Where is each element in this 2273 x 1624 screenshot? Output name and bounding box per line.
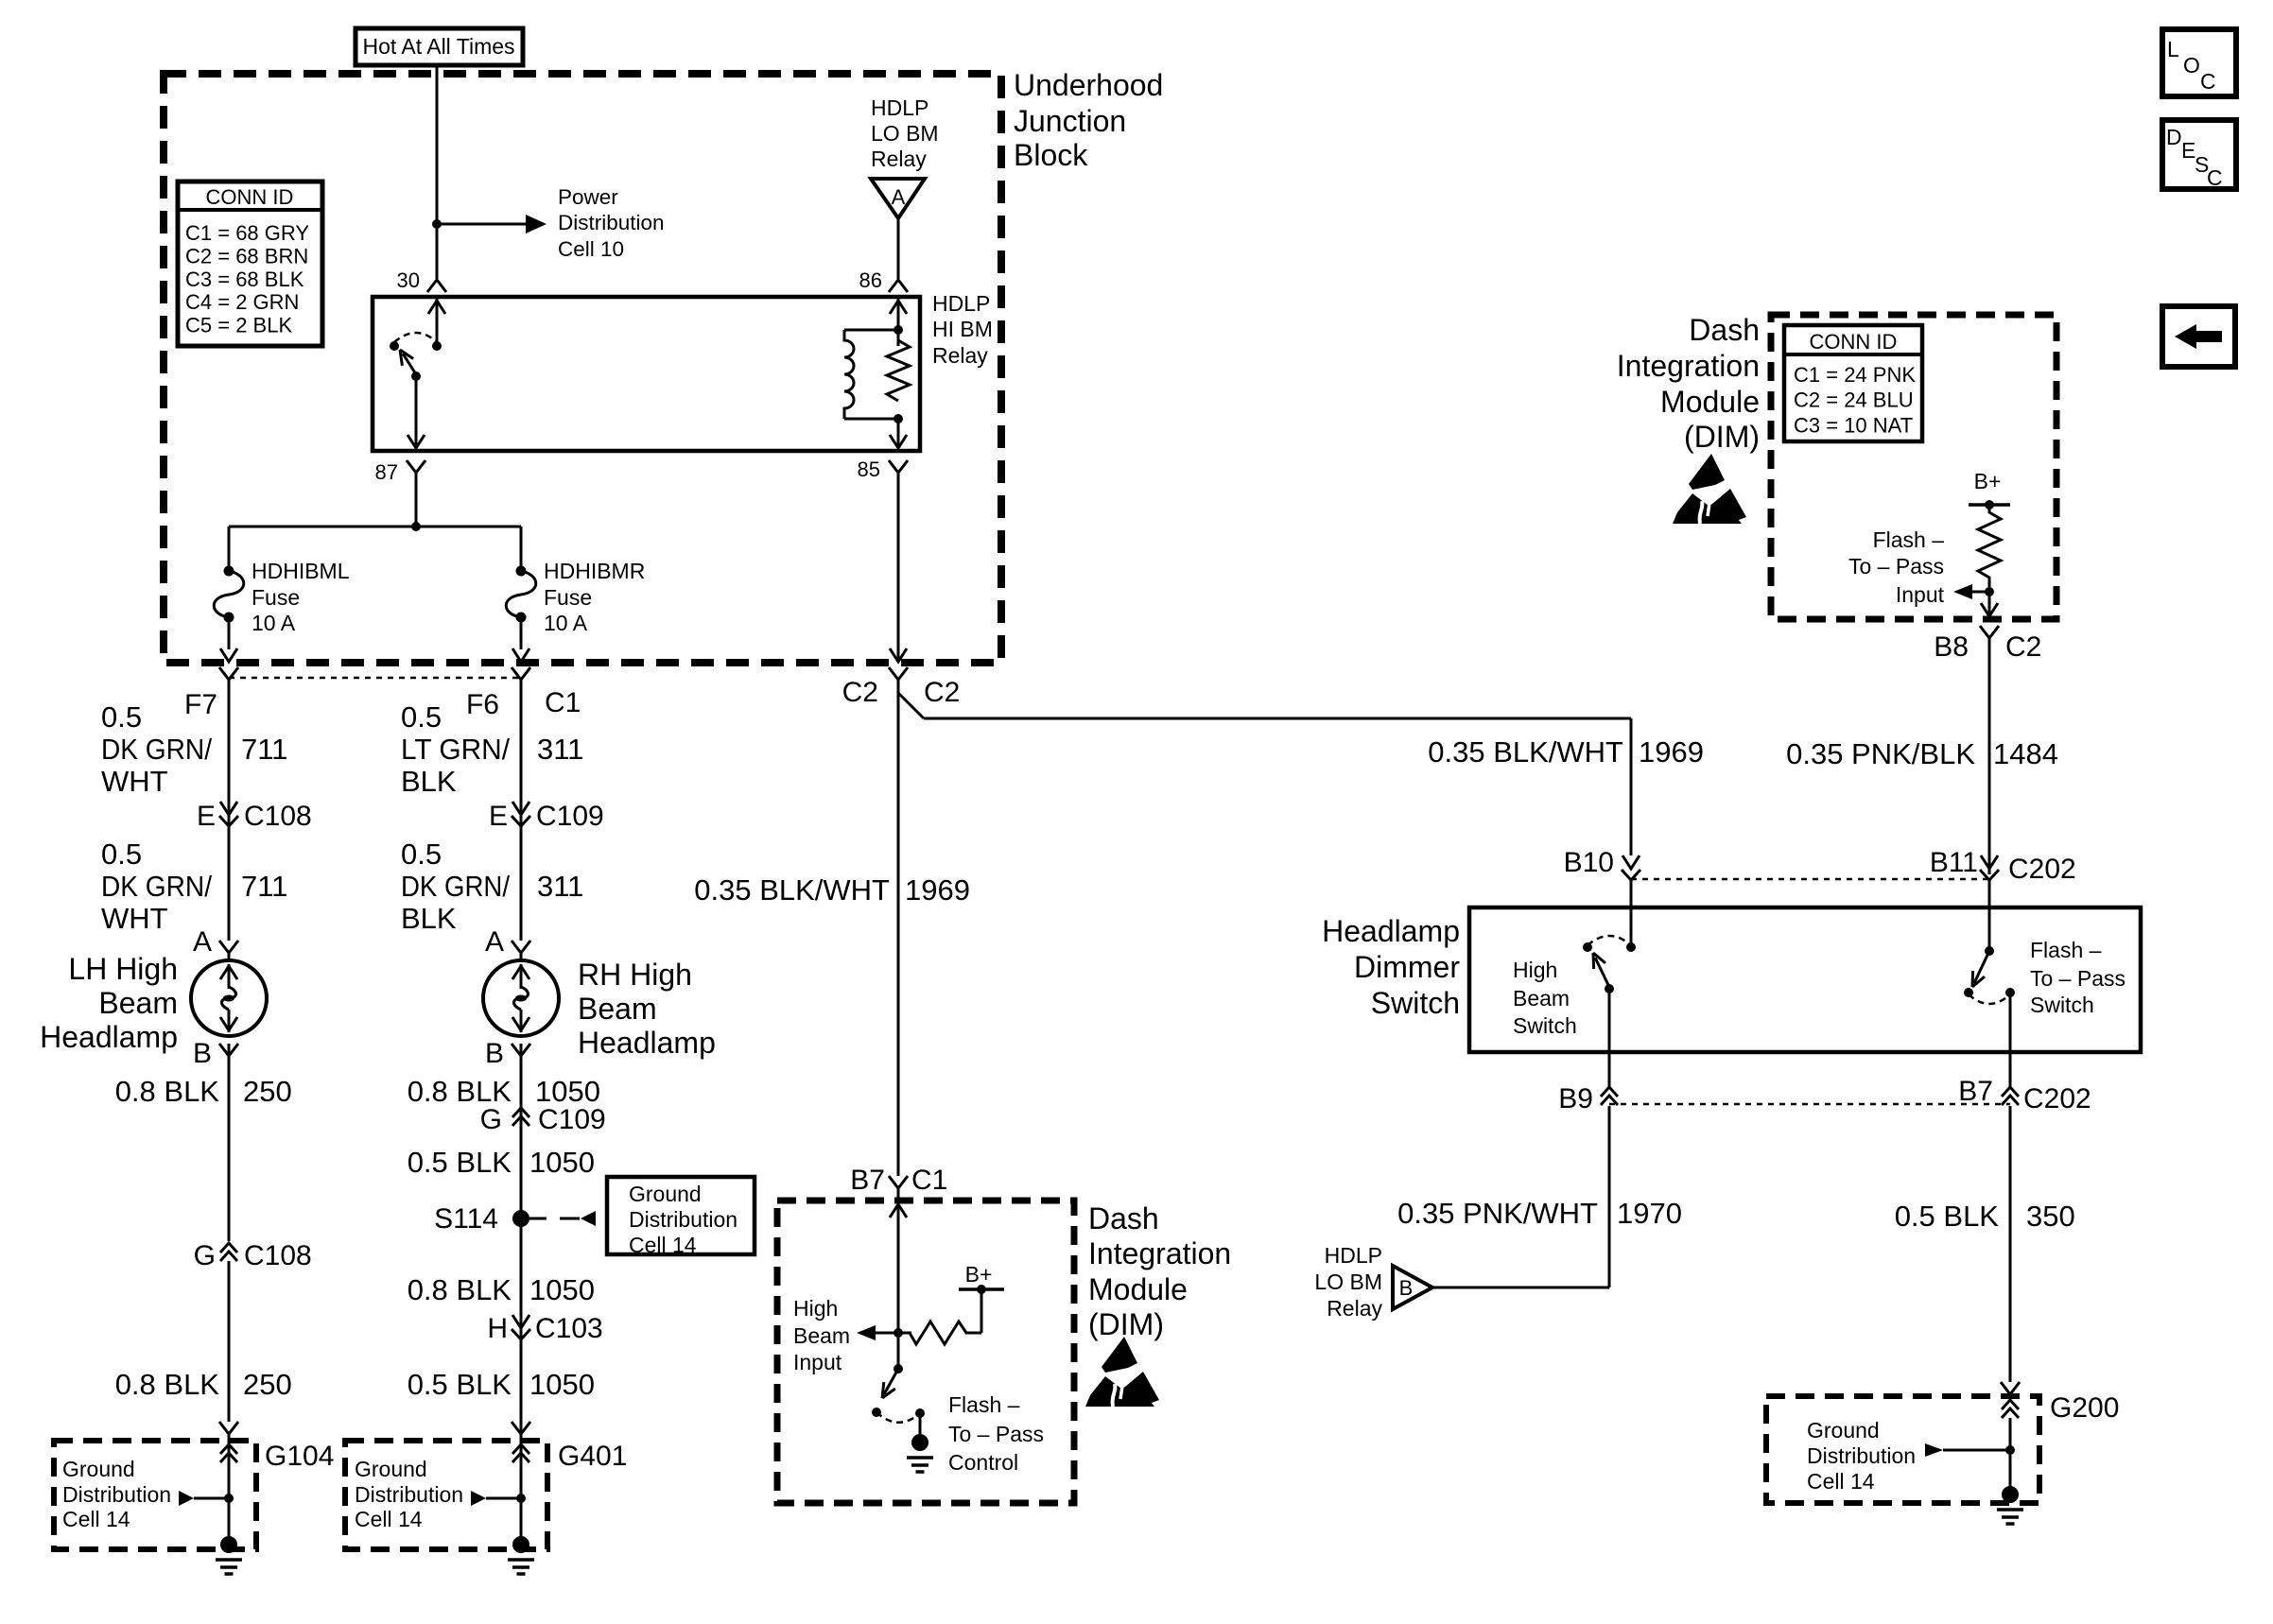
svg-text:C5 = 2 BLK: C5 = 2 BLK — [185, 314, 292, 337]
svg-text:Relay: Relay — [1327, 1296, 1382, 1321]
svg-text:Ground: Ground — [355, 1457, 427, 1481]
svg-text:250: 250 — [243, 1075, 292, 1108]
svg-text:30: 30 — [397, 268, 420, 292]
svg-text:10 A: 10 A — [544, 611, 588, 635]
svg-text:DK GRN/: DK GRN/ — [401, 870, 510, 903]
svg-text:BLK: BLK — [401, 765, 457, 798]
svg-text:0.5: 0.5 — [401, 838, 442, 871]
svg-text:711: 711 — [241, 870, 287, 903]
svg-text:0.5 BLK: 0.5 BLK — [408, 1146, 512, 1179]
svg-text:1050: 1050 — [529, 1146, 595, 1179]
svg-text:311: 311 — [537, 733, 583, 766]
svg-text:DK GRN/: DK GRN/ — [101, 870, 212, 903]
svg-text:Distribution: Distribution — [629, 1207, 737, 1232]
svg-text:Relay: Relay — [871, 147, 927, 171]
svg-text:High: High — [793, 1296, 838, 1321]
svg-text:Distribution: Distribution — [62, 1482, 171, 1507]
svg-text:Headlamp: Headlamp — [578, 1026, 716, 1060]
svg-text:Headlamp: Headlamp — [1322, 914, 1460, 948]
svg-text:LH High: LH High — [68, 952, 178, 986]
svg-text:B: B — [193, 1038, 212, 1069]
svg-text:D: D — [2166, 125, 2182, 149]
svg-text:LT GRN/: LT GRN/ — [401, 733, 510, 766]
svg-text:B10: B10 — [1564, 847, 1614, 878]
svg-text:C1 = 24 PNK: C1 = 24 PNK — [1794, 363, 1916, 387]
svg-text:G: G — [194, 1240, 216, 1271]
svg-text:1969: 1969 — [905, 873, 970, 907]
svg-text:Ground: Ground — [629, 1182, 702, 1206]
svg-text:Module: Module — [1660, 385, 1760, 419]
svg-text:Dash: Dash — [1689, 313, 1760, 347]
svg-text:Distribution: Distribution — [1807, 1443, 1916, 1468]
svg-text:0.5: 0.5 — [401, 700, 442, 734]
svg-text:Beam: Beam — [98, 986, 178, 1020]
svg-text:Relay: Relay — [932, 343, 988, 368]
svg-text:85: 85 — [858, 458, 880, 481]
svg-text:Control: Control — [948, 1450, 1018, 1475]
svg-text:B+: B+ — [1974, 469, 2002, 493]
svg-text:Dash: Dash — [1088, 1201, 1159, 1235]
svg-text:Beam: Beam — [578, 992, 657, 1026]
svg-text:Underhood: Underhood — [1014, 68, 1163, 102]
svg-text:C1: C1 — [545, 687, 581, 718]
svg-text:C2: C2 — [2005, 631, 2041, 663]
svg-text:B: B — [1399, 1276, 1414, 1300]
svg-text:C2: C2 — [924, 677, 960, 708]
svg-text:(DIM): (DIM) — [1684, 420, 1760, 454]
svg-text:0.35 BLK/WHT: 0.35 BLK/WHT — [694, 873, 890, 907]
svg-text:C3 = 10 NAT: C3 = 10 NAT — [1794, 413, 1913, 437]
svg-text:Distribution: Distribution — [355, 1482, 463, 1507]
svg-text:Input: Input — [1896, 582, 1945, 607]
svg-text:H: H — [487, 1313, 508, 1344]
svg-text:87: 87 — [375, 460, 398, 484]
svg-text:Flash –: Flash – — [1873, 527, 1945, 552]
svg-text:G200: G200 — [2050, 1392, 2119, 1424]
svg-text:HDLP: HDLP — [932, 291, 990, 316]
svg-text:Ground: Ground — [1807, 1418, 1880, 1443]
svg-text:F6: F6 — [466, 689, 499, 720]
svg-text:HI BM: HI BM — [932, 317, 993, 341]
svg-text:C: C — [2207, 165, 2223, 190]
svg-text:C2 = 68 BRN: C2 = 68 BRN — [185, 244, 308, 268]
svg-text:0.35 PNK/WHT: 0.35 PNK/WHT — [1397, 1197, 1598, 1230]
svg-text:Block: Block — [1014, 138, 1088, 172]
svg-text:C108: C108 — [244, 801, 312, 832]
svg-text:HDHIBMR: HDHIBMR — [544, 559, 645, 583]
svg-text:Module: Module — [1088, 1272, 1188, 1306]
svg-text:0.5 BLK: 0.5 BLK — [408, 1368, 512, 1401]
svg-text:To – Pass: To – Pass — [1848, 554, 1944, 579]
svg-text:HDLP: HDLP — [871, 95, 928, 120]
svg-text:C: C — [2200, 69, 2216, 94]
svg-text:0.8 BLK: 0.8 BLK — [115, 1368, 220, 1401]
svg-text:0.5 BLK: 0.5 BLK — [1895, 1200, 2000, 1233]
svg-text:LO BM: LO BM — [1314, 1270, 1382, 1294]
svg-text:1050: 1050 — [529, 1273, 595, 1306]
svg-text:E: E — [489, 801, 508, 832]
svg-text:0.8 BLK: 0.8 BLK — [115, 1075, 220, 1108]
svg-text:0.8 BLK: 0.8 BLK — [408, 1075, 512, 1108]
svg-text:WHT: WHT — [101, 902, 168, 935]
svg-text:A: A — [485, 926, 504, 958]
svg-text:Cell 14: Cell 14 — [62, 1507, 130, 1531]
svg-text:C109: C109 — [538, 1104, 606, 1135]
svg-text:B8: B8 — [1934, 631, 1969, 663]
svg-text:C108: C108 — [244, 1240, 312, 1271]
svg-text:Headlamp: Headlamp — [40, 1020, 178, 1054]
svg-text:B7: B7 — [1958, 1076, 1993, 1107]
svg-text:Dimmer: Dimmer — [1354, 950, 1460, 984]
svg-text:Cell 14: Cell 14 — [629, 1233, 697, 1257]
svg-text:1970: 1970 — [1617, 1197, 1682, 1230]
svg-text:0.8 BLK: 0.8 BLK — [408, 1273, 512, 1306]
svg-text:B+: B+ — [965, 1262, 993, 1287]
svg-text:DK GRN/: DK GRN/ — [101, 733, 212, 766]
svg-text:CONN ID: CONN ID — [1810, 330, 1898, 354]
svg-text:E: E — [197, 801, 216, 832]
svg-text:Flash –: Flash – — [948, 1392, 1020, 1417]
svg-text:O: O — [2183, 53, 2200, 78]
svg-text:G401: G401 — [558, 1441, 627, 1472]
svg-text:10 A: 10 A — [252, 611, 296, 635]
svg-text:Switch: Switch — [2030, 993, 2094, 1017]
svg-text:C1: C1 — [911, 1165, 947, 1196]
svg-text:Integration: Integration — [1088, 1236, 1231, 1270]
svg-text:C202: C202 — [2008, 854, 2076, 885]
svg-text:Cell 10: Cell 10 — [558, 237, 624, 261]
svg-text:Power: Power — [558, 185, 618, 209]
svg-text:Integration: Integration — [1617, 349, 1760, 383]
svg-text:BLK: BLK — [401, 902, 457, 935]
svg-text:Hot At All Times: Hot At All Times — [362, 34, 514, 59]
svg-text:B9: B9 — [1558, 1083, 1593, 1114]
svg-text:350: 350 — [2026, 1200, 2075, 1233]
svg-text:B: B — [485, 1038, 504, 1069]
svg-text:To – Pass: To – Pass — [2030, 966, 2126, 991]
svg-text:RH High: RH High — [578, 958, 692, 992]
svg-text:Cell 14: Cell 14 — [1807, 1469, 1875, 1494]
svg-text:C109: C109 — [536, 801, 604, 832]
svg-text:Beam: Beam — [793, 1323, 850, 1348]
svg-text:Switch: Switch — [1513, 1013, 1577, 1038]
svg-text:C202: C202 — [2023, 1083, 2091, 1114]
svg-text:0.5: 0.5 — [101, 838, 142, 871]
svg-text:C2: C2 — [842, 677, 878, 708]
svg-text:1050: 1050 — [529, 1368, 595, 1401]
svg-text:C2 = 24 BLU: C2 = 24 BLU — [1794, 389, 1914, 412]
svg-text:WHT: WHT — [101, 765, 168, 798]
svg-text:Switch: Switch — [1371, 986, 1460, 1020]
svg-text:LO BM: LO BM — [871, 121, 939, 146]
svg-text:B11: B11 — [1930, 847, 1978, 878]
svg-text:0.5: 0.5 — [101, 700, 142, 734]
svg-text:(DIM): (DIM) — [1088, 1307, 1164, 1341]
svg-text:Fuse: Fuse — [252, 585, 300, 610]
svg-text:Ground: Ground — [62, 1457, 135, 1481]
svg-text:Junction: Junction — [1014, 104, 1126, 138]
svg-text:311: 311 — [537, 870, 583, 903]
svg-text:To – Pass: To – Pass — [948, 1422, 1044, 1446]
svg-text:Fuse: Fuse — [544, 585, 592, 610]
svg-text:C1 = 68 GRY: C1 = 68 GRY — [185, 221, 309, 245]
svg-text:L: L — [2167, 37, 2179, 61]
svg-text:Beam: Beam — [1513, 986, 1570, 1011]
svg-text:A: A — [892, 185, 906, 209]
svg-text:Distribution: Distribution — [558, 211, 665, 234]
svg-text:HDHIBML: HDHIBML — [252, 559, 350, 583]
svg-text:A: A — [193, 926, 212, 958]
svg-text:S114: S114 — [434, 1203, 498, 1235]
svg-text:Flash –: Flash – — [2030, 938, 2102, 962]
svg-text:F7: F7 — [184, 689, 217, 720]
svg-text:B7: B7 — [850, 1165, 885, 1196]
svg-text:CONN ID: CONN ID — [206, 185, 294, 209]
svg-text:G: G — [480, 1104, 502, 1135]
svg-text:G104: G104 — [265, 1441, 334, 1472]
svg-text:0.35 BLK/WHT: 0.35 BLK/WHT — [1428, 735, 1623, 769]
svg-text:Input: Input — [793, 1350, 842, 1374]
svg-text:1050: 1050 — [535, 1075, 600, 1108]
svg-text:C4 = 2 GRN: C4 = 2 GRN — [185, 290, 299, 314]
svg-text:1969: 1969 — [1639, 735, 1704, 769]
svg-text:HDLP: HDLP — [1325, 1243, 1382, 1268]
svg-text:711: 711 — [241, 733, 287, 766]
svg-text:250: 250 — [243, 1368, 292, 1401]
svg-text:C103: C103 — [535, 1313, 603, 1344]
svg-text:C3 = 68 BLK: C3 = 68 BLK — [185, 268, 304, 291]
svg-text:High: High — [1513, 958, 1557, 982]
svg-text:86: 86 — [859, 268, 882, 292]
svg-text:1484: 1484 — [1993, 737, 2058, 770]
svg-text:0.35 PNK/BLK: 0.35 PNK/BLK — [1786, 737, 1975, 770]
svg-text:Cell 14: Cell 14 — [355, 1507, 423, 1531]
